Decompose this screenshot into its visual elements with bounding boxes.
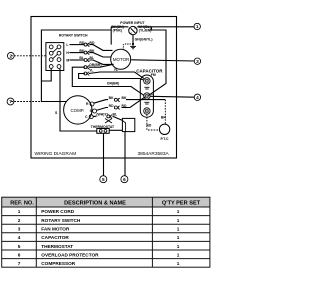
svg-text:BK: BK bbox=[109, 96, 114, 100]
svg-text:1: 1 bbox=[177, 235, 180, 240]
svg-text:RD: RD bbox=[79, 41, 84, 45]
svg-text:1: 1 bbox=[177, 252, 180, 257]
svg-text:1: 1 bbox=[177, 261, 180, 266]
svg-text:(PNK): (PNK) bbox=[113, 29, 123, 33]
svg-text:RD: RD bbox=[109, 104, 114, 108]
svg-text:YL: YL bbox=[89, 68, 93, 72]
svg-text:L: L bbox=[66, 43, 68, 47]
svg-text:DESCRIPTION & NAME: DESCRIPTION & NAME bbox=[64, 200, 126, 206]
svg-text:4: 4 bbox=[196, 95, 199, 100]
svg-text:1: 1 bbox=[196, 24, 199, 29]
svg-text:BL: BL bbox=[113, 113, 118, 117]
svg-text:BK: BK bbox=[161, 115, 166, 119]
svg-text:GN(GN/YL): GN(GN/YL) bbox=[135, 37, 153, 41]
svg-text:3: 3 bbox=[196, 59, 199, 64]
svg-text:H: H bbox=[66, 51, 69, 55]
svg-text:CAPACITOR: CAPACITOR bbox=[41, 235, 69, 240]
svg-text:3: 3 bbox=[18, 227, 21, 232]
svg-text:2: 2 bbox=[9, 54, 12, 59]
svg-text:OVERLOAD PROTECTOR: OVERLOAD PROTECTOR bbox=[41, 252, 99, 257]
svg-text:YL: YL bbox=[114, 68, 118, 72]
svg-text:5: 5 bbox=[18, 244, 21, 249]
svg-text:CAPACITOR: CAPACITOR bbox=[136, 68, 163, 73]
svg-text:7: 7 bbox=[9, 99, 12, 104]
svg-text:RD: RD bbox=[122, 104, 127, 108]
svg-text:BL: BL bbox=[90, 56, 95, 60]
svg-text:4: 4 bbox=[18, 235, 21, 240]
svg-text:COMP.: COMP. bbox=[71, 108, 85, 113]
svg-text:POWER CORD: POWER CORD bbox=[41, 209, 74, 214]
svg-text:RD: RD bbox=[90, 41, 95, 45]
svg-text:2: 2 bbox=[18, 218, 21, 223]
svg-text:6: 6 bbox=[18, 252, 21, 257]
svg-text:1: 1 bbox=[177, 218, 180, 223]
svg-text:THERMOSTAT: THERMOSTAT bbox=[91, 125, 115, 129]
svg-text:P.T.C: P.T.C bbox=[161, 137, 169, 141]
svg-text:BK: BK bbox=[79, 49, 84, 53]
svg-text:OR(BR): OR(BR) bbox=[107, 82, 119, 86]
svg-text:6: 6 bbox=[123, 177, 126, 182]
svg-text:MOTOR: MOTOR bbox=[113, 57, 129, 62]
svg-text:BK: BK bbox=[122, 96, 127, 100]
svg-text:REF. NO.: REF. NO. bbox=[10, 201, 34, 207]
svg-text:5: 5 bbox=[102, 177, 105, 182]
svg-text:BK: BK bbox=[90, 49, 95, 53]
svg-text:1: 1 bbox=[177, 227, 180, 232]
svg-text:FM: FM bbox=[151, 73, 156, 77]
svg-text:C: C bbox=[85, 115, 88, 119]
svg-text:3854AR3583A: 3854AR3583A bbox=[138, 151, 170, 157]
svg-text:(YL/BN): (YL/BN) bbox=[139, 29, 152, 33]
svg-text:ROTARY SWITCH: ROTARY SWITCH bbox=[41, 218, 81, 223]
svg-text:ROTARY SWITCH: ROTARY SWITCH bbox=[59, 34, 88, 38]
svg-text:1: 1 bbox=[18, 209, 21, 214]
svg-text:FAN MOTOR: FAN MOTOR bbox=[41, 227, 70, 232]
svg-text:1: 1 bbox=[177, 209, 180, 214]
svg-text:Q'TY PER SET: Q'TY PER SET bbox=[162, 200, 201, 206]
svg-text:1: 1 bbox=[177, 244, 180, 249]
svg-text:(WH)YL: (WH)YL bbox=[96, 113, 108, 117]
svg-text:RD: RD bbox=[146, 123, 151, 127]
svg-text:7: 7 bbox=[18, 261, 21, 266]
svg-text:S: S bbox=[55, 111, 58, 115]
svg-text:THERMOSTAT: THERMOSTAT bbox=[41, 244, 73, 249]
svg-text:M: M bbox=[66, 59, 69, 63]
svg-text:COMPRESSOR: COMPRESSOR bbox=[41, 261, 75, 266]
svg-text:OR(BR): OR(BR) bbox=[89, 63, 101, 67]
svg-text:BL: BL bbox=[79, 56, 84, 60]
svg-text:WIRING DIAGRAM: WIRING DIAGRAM bbox=[35, 151, 77, 157]
svg-text:R: R bbox=[86, 102, 89, 106]
